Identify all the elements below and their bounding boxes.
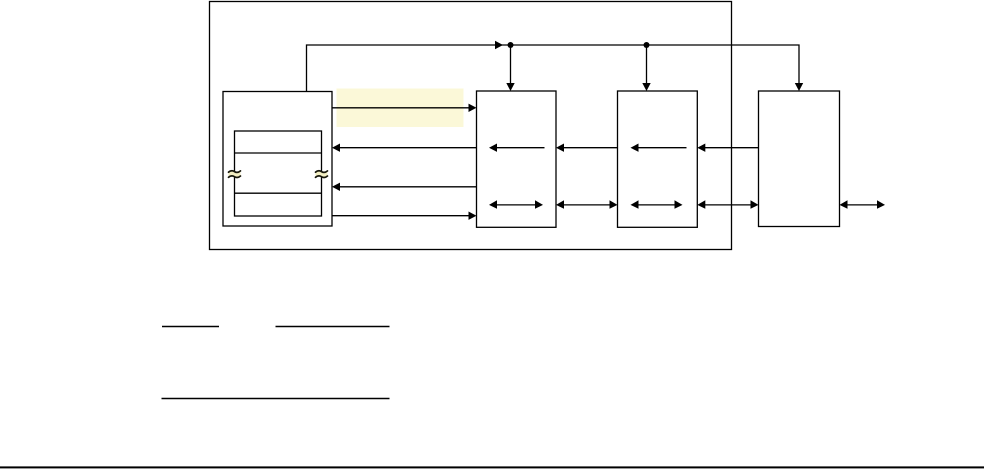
arrow memory to B2 bottom (332, 215, 470, 217)
arrow memory to B2 (highlighted bus) (332, 107, 470, 109)
bottom page rule (0, 466, 984, 468)
memory block (223, 92, 332, 227)
underline segment 3 (162, 398, 390, 400)
outer system boundary box (210, 2, 732, 250)
arrow B2 to memory lower (340, 186, 477, 188)
internal double arrow in B3 (637, 204, 676, 206)
internal arrow in B2 upper (497, 147, 545, 149)
break mark left (229, 171, 241, 178)
memory divider upper (235, 152, 322, 154)
junction dot over B2 (508, 42, 514, 48)
arrow B4 to B3 (705, 147, 759, 149)
inner memory array box (235, 131, 322, 216)
block B3 (618, 91, 698, 227)
junction dot over B3 (644, 42, 650, 48)
underline segment 1 (162, 326, 219, 328)
internal arrow in B3 upper (638, 147, 687, 149)
double arrow right of B4 (846, 204, 878, 206)
break mark right (316, 171, 328, 178)
arrowhead into B4 top (795, 83, 803, 91)
double arrow B3-B4 (704, 204, 752, 206)
internal double arrow in B2 (496, 204, 537, 206)
highlight band on address bus (337, 89, 464, 128)
memory divider lower (235, 192, 322, 194)
underline segment 2 (276, 326, 390, 328)
double arrow B2-B3 (563, 204, 611, 206)
arrow B3 to B2 (564, 147, 618, 149)
block B2 (477, 91, 557, 227)
wire drop into B3 (646, 45, 648, 84)
arrowhead on top wire (495, 41, 503, 49)
arrow B2 to memory (340, 147, 477, 149)
top wire from memory (307, 45, 800, 92)
block B4 (759, 91, 840, 227)
wire drop into B2 (510, 45, 512, 84)
